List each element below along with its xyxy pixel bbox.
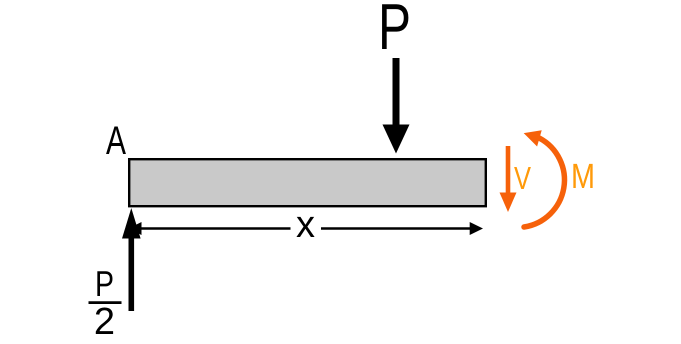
svg-text:P: P [378,0,411,63]
svg-text:P: P [95,263,114,304]
svg-text:x: x [296,204,315,246]
svg-text:V: V [514,160,532,196]
svg-text:2: 2 [94,301,115,343]
svg-text:M: M [571,157,595,196]
svg-text:A: A [106,119,126,163]
